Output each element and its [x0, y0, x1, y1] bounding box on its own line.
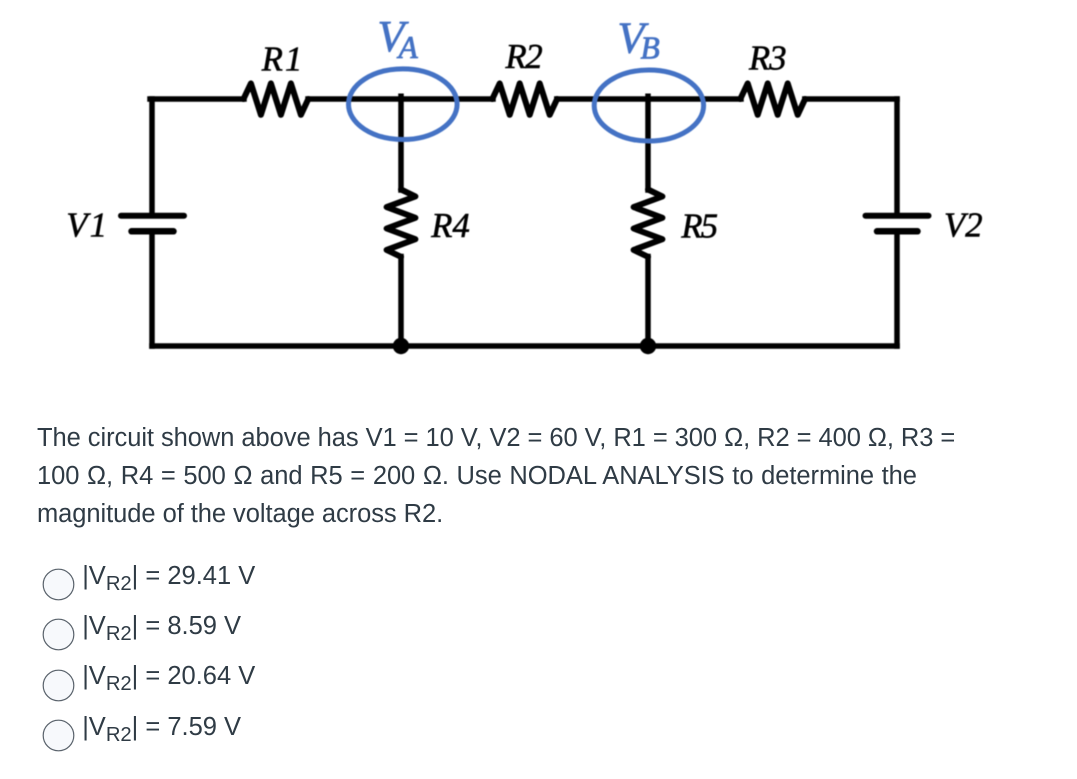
- svg-text:V1: V1: [66, 207, 107, 245]
- svg-text:A: A: [397, 30, 419, 65]
- svg-text:R4: R4: [430, 207, 470, 245]
- svg-text:R1: R1: [261, 40, 303, 78]
- svg-text:V2: V2: [944, 206, 983, 244]
- svg-text:R5: R5: [680, 208, 718, 246]
- svg-text:B: B: [641, 30, 660, 65]
- svg-text:R3: R3: [748, 39, 787, 77]
- svg-text:R2: R2: [505, 38, 543, 76]
